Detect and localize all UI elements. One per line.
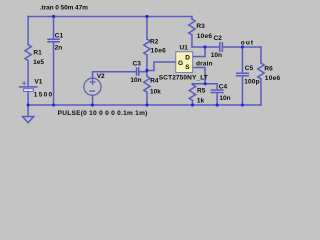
svg-text:SCT2750NY_LT: SCT2750NY_LT: [159, 74, 208, 81]
wire R3 bottom lead: [191, 35, 193, 47]
wire C1 branch upper: [53, 16, 55, 39]
svg-text:D: D: [185, 55, 190, 62]
svg-text:2n: 2n: [55, 44, 63, 51]
junction bottom rail / C4: [216, 103, 219, 106]
capacitor C5: [237, 73, 249, 76]
svg-text:PULSE(0 10 0 0 0 0.1m 1m): PULSE(0 10 0 0 0 0.1m 1m): [58, 110, 148, 117]
svg-text:U1: U1: [180, 44, 189, 51]
resistor R2: [144, 39, 150, 55]
wire source pin path: [193, 67, 205, 83]
svg-text:R4: R4: [150, 78, 159, 85]
svg-text:1500: 1500: [34, 91, 53, 98]
wire R3 top lead: [191, 16, 193, 19]
wire C5 branch lower: [241, 76, 243, 105]
capacitor C4: [211, 84, 223, 105]
wire C3 to node: [139, 70, 147, 71]
transistor U1 body (SCT2750NY_LT MOSFET subcircuit): [176, 52, 193, 73]
svg-text:10e6: 10e6: [265, 75, 281, 82]
wire R1 to V1: [27, 61, 29, 87]
svg-text:10e6: 10e6: [151, 47, 167, 54]
wire C5 branch upper: [241, 47, 243, 73]
resistor R5: [189, 84, 195, 105]
capacitor C3: [137, 68, 139, 75]
node source junction: [204, 82, 207, 85]
svg-text:C5: C5: [245, 65, 254, 72]
wire out level right: [223, 46, 261, 48]
svg-text:R6: R6: [264, 65, 273, 72]
wire R2 bottom lead: [146, 55, 148, 70]
junction bottom rail / R5: [191, 103, 194, 106]
svg-text:C4: C4: [219, 83, 228, 90]
svg-text:G: G: [178, 60, 183, 67]
svg-text:C2: C2: [214, 35, 223, 42]
junction top rail / R2 branch: [145, 15, 148, 18]
wire top rail: [28, 15, 192, 17]
svg-text:R3: R3: [196, 23, 205, 30]
svg-text:R2: R2: [150, 39, 159, 46]
svg-text:10n: 10n: [130, 77, 141, 84]
svg-text:drain: drain: [196, 61, 213, 68]
svg-text:S: S: [185, 64, 190, 71]
wire C1 branch lower: [53, 42, 55, 105]
svg-text:V2: V2: [97, 73, 105, 80]
capacitor C1: [48, 39, 59, 42]
svg-text:R5: R5: [197, 88, 206, 95]
wire V2 bottom: [92, 95, 94, 105]
wire R2 top lead: [146, 16, 148, 39]
wire V1 to bottom rail: [27, 91, 29, 105]
junction top rail / C1 branch: [52, 15, 55, 18]
svg-text:10k: 10k: [150, 89, 161, 96]
node gate: C3/R2/R4/G junction: [145, 69, 148, 72]
wire gate path: [147, 62, 176, 70]
junction bottom rail / ground: [27, 103, 30, 106]
voltage source V2: [84, 78, 101, 95]
svg-text:10n: 10n: [219, 95, 230, 102]
node out junction: [241, 45, 244, 48]
svg-text:10n: 10n: [211, 52, 222, 59]
capacitor C2: [220, 43, 223, 51]
wire drain horizontal D pin: [193, 47, 205, 57]
resistor R6: [258, 63, 264, 79]
svg-text:C1: C1: [55, 33, 64, 40]
wire source node rail: [192, 83, 217, 85]
resistor R3: [189, 19, 195, 35]
junction bottom rail / R4: [145, 103, 148, 106]
battery V1: [20, 82, 37, 92]
resistor R4: [144, 76, 150, 92]
svg-text:1k: 1k: [197, 98, 205, 105]
ground: [22, 105, 33, 123]
junction bottom rail / C1: [52, 103, 55, 106]
svg-text:V1: V1: [34, 79, 42, 86]
svg-text:10e6: 10e6: [197, 33, 213, 40]
junction bottom rail / C5: [241, 103, 244, 106]
wire bottom rail: [28, 104, 261, 106]
wire R6 top lead: [260, 47, 262, 63]
svg-text:R1: R1: [33, 50, 42, 57]
node drain junction: [204, 45, 207, 48]
wire out level left: [192, 46, 219, 48]
junction bottom rail / V2: [91, 103, 94, 106]
resistor R1: [25, 45, 31, 61]
wire left rail upper: [27, 16, 29, 44]
wire R4 bottom lead: [146, 92, 148, 105]
wire V2 top L: [93, 72, 137, 79]
svg-text:100p: 100p: [244, 78, 259, 85]
wire R4 top lead: [146, 70, 148, 76]
svg-text:1e5: 1e5: [33, 59, 44, 66]
svg-text:out: out: [241, 39, 254, 46]
svg-text:.tran 0 50m 47m: .tran 0 50m 47m: [40, 4, 88, 11]
wire R6 bottom lead: [260, 79, 262, 105]
svg-text:C3: C3: [133, 60, 142, 67]
